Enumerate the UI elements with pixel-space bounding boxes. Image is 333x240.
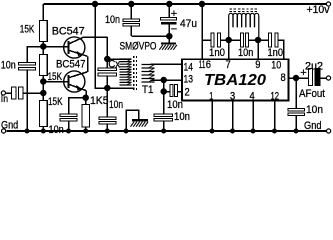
node 10n top rail junction: [129, 2, 134, 7]
wire pin 11 to rail: [201, 4, 203, 59]
wire tank bottom to T1 primary bottom: [107, 87, 134, 89]
node B junction: [41, 79, 46, 84]
svg-text:47u: 47u: [180, 18, 197, 30]
wire L1 left to pin 7: [228, 40, 230, 59]
svg-text:1n0: 1n0: [209, 47, 225, 59]
wire T1 secondary top to pin 14: [151, 63, 183, 65]
wire pin 4: [252, 101, 254, 132]
node L1 left junction: [226, 38, 231, 43]
svg-text:BC547: BC547: [56, 59, 86, 71]
capacitor C11 2u2 electrolytic: [309, 69, 327, 86]
inductor L1 quad coil: [229, 13, 259, 40]
wire C1 to ground rail (crosses In wire): [26, 70, 28, 131]
svg-text:7: 7: [226, 59, 231, 71]
wire node B to Q2 base: [43, 81, 68, 83]
node Gnd terminal right: [327, 129, 331, 133]
svg-text:8: 8: [281, 72, 286, 84]
svg-text:T1: T1: [142, 84, 154, 96]
node In terminal: [1, 91, 5, 95]
capacitor C4 Cx: [98, 59, 117, 88]
transformer T1 core: [134, 56, 137, 90]
capacitor C3 10n emitter bypass: [60, 114, 77, 121]
svg-text:+10v: +10v: [307, 4, 330, 16]
svg-text:10n: 10n: [174, 111, 190, 123]
resistor R3 15K: [40, 82, 48, 132]
node earth junction: [167, 34, 172, 39]
svg-text:2: 2: [185, 86, 190, 98]
svg-text:10n: 10n: [238, 47, 253, 59]
resistor R4 1K5: [82, 98, 90, 131]
resistor R2 15K: [40, 47, 48, 82]
svg-text:9: 9: [255, 59, 260, 71]
wire pin11 line to C-A: [202, 39, 211, 41]
svg-text:+: +: [300, 67, 306, 79]
wire Q2 emitter down: [85, 91, 87, 98]
op-amp U1 TBA120 box: [182, 59, 289, 100]
svg-text:1n0: 1n0: [268, 47, 284, 59]
capacitor CC 1n0: [269, 33, 279, 47]
capacitor C2 input coupling: [12, 87, 23, 99]
svg-text:10n: 10n: [1, 59, 16, 71]
transformer T1 secondary winding: [142, 65, 155, 83]
wire C2 to node C: [23, 92, 44, 94]
wire ground bottom rail: [7, 130, 327, 132]
wire T1 secondary bottom to pin 13: [151, 79, 183, 81]
svg-text:10n: 10n: [167, 99, 183, 111]
wire CB to CC: [249, 39, 269, 41]
ground earth symbol T1: [131, 120, 149, 127]
wire CC to pin 10: [278, 40, 284, 59]
wire +10V rail down (crosses collector wire) to tank bottom: [95, 4, 107, 88]
svg-text:+: +: [171, 8, 177, 20]
node 47u top rail junction: [167, 2, 172, 7]
svg-text:1: 1: [209, 90, 213, 102]
node rail junction dots top: [93, 2, 98, 7]
svg-text:In: In: [1, 94, 8, 105]
svg-text:Cx: Cx: [108, 59, 120, 71]
node +10v terminal: [326, 2, 330, 6]
svg-text:10n: 10n: [306, 104, 323, 116]
wire pin 3: [232, 101, 234, 132]
wire In terminal to C2: [6, 92, 12, 94]
capacitor C6 10n supply: [123, 4, 140, 36]
svg-text:10: 10: [271, 60, 281, 72]
node pin11 top rail junction: [200, 2, 205, 7]
svg-text:SMØVPO: SMØVPO: [120, 41, 157, 53]
capacitor CA 1n0: [211, 33, 221, 47]
svg-text:2u2: 2u2: [305, 60, 323, 72]
wire pin 1: [211, 101, 213, 132]
wire earth junction down: [168, 36, 170, 42]
node tank bottom junction: [105, 86, 110, 91]
wire tank top to T1 primary: [107, 58, 131, 60]
svg-text:3: 3: [230, 90, 235, 102]
wire pin 8 output: [289, 77, 309, 79]
svg-text:15K: 15K: [48, 96, 63, 108]
svg-text:10n: 10n: [109, 99, 123, 111]
wire earth link to ground rail: [126, 110, 139, 131]
svg-text:4: 4: [250, 90, 255, 102]
wire Q1 emitter to Q2 collector: [87, 56, 89, 72]
node C8 junction: [161, 89, 166, 94]
wire node A to Q1 base: [43, 46, 68, 48]
svg-text:15K: 15K: [48, 71, 63, 83]
node L1 right junction: [256, 38, 261, 43]
svg-text:6: 6: [206, 59, 211, 71]
wire C3 to ground rail: [68, 121, 70, 131]
capacitor CB 10n: [241, 33, 249, 47]
wire pin 12: [274, 101, 276, 132]
node Gnd terminal left: [2, 129, 6, 133]
node pin8 junction: [294, 76, 299, 81]
capacitor C1 10n: [19, 63, 36, 71]
svg-text:11: 11: [199, 59, 206, 71]
svg-text:Gnd: Gnd: [1, 119, 18, 131]
svg-text:AFout: AFout: [299, 88, 325, 100]
transformer T1 primary winding: [120, 59, 132, 85]
node Q2 emitter junction: [83, 95, 88, 100]
svg-text:10n: 10n: [105, 14, 120, 26]
node C junction: [41, 91, 46, 96]
wire L1 right to pin 9: [257, 40, 259, 59]
node tank top junction: [105, 57, 110, 62]
wire CA to node L1 left: [221, 39, 241, 41]
ground earth symbol supply: [159, 44, 177, 50]
wire node A to C1: [27, 47, 43, 63]
wire Q1 collector: [84, 36, 108, 38]
capacitor C5 10n tank decoupling: [99, 88, 116, 131]
resistor R1 15K: [40, 4, 48, 47]
transistor Q2 BC547: [64, 71, 88, 92]
svg-text:12: 12: [271, 90, 280, 102]
wire +10V top rail: [43, 3, 326, 5]
svg-text:13: 13: [184, 73, 194, 85]
svg-text:BC547: BC547: [52, 25, 85, 37]
wire collector to tank top: [106, 37, 108, 59]
wire emitter node to C3: [69, 98, 86, 114]
svg-text:15K: 15K: [20, 24, 35, 36]
svg-text:1K5: 1K5: [90, 95, 109, 107]
capacitor C9 10n T1 ground: [154, 92, 173, 132]
svg-text:14: 14: [184, 61, 194, 73]
wire pin13 node down: [163, 80, 165, 92]
node pin13 junction: [161, 78, 166, 83]
svg-text:10n: 10n: [49, 124, 64, 136]
core L1 dashed lines: [230, 9, 260, 12]
capacitor C7 47u electrolytic: [161, 4, 177, 36]
node rail junction dots bottom: [25, 129, 299, 134]
node AFout terminal: [326, 76, 330, 80]
node A junction: [41, 44, 46, 49]
capacitor C10 10n output: [288, 78, 305, 131]
svg-text:TBA120: TBA120: [204, 72, 266, 89]
svg-text:Gnd: Gnd: [304, 120, 322, 132]
svg-text:−: −: [171, 23, 177, 35]
transistor Q1 BC547: [64, 37, 88, 58]
wire C6 to earth node: [131, 35, 169, 37]
capacitor C8 10n to pin 2: [164, 85, 182, 97]
